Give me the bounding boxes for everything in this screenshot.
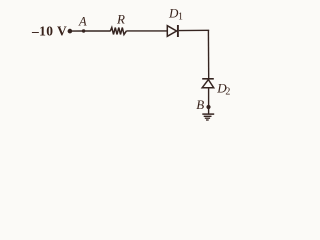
wire node A to resistor [84,30,111,32]
terminal dot [68,29,73,34]
diode D1 [167,25,178,37]
svg-text:R: R [116,12,125,27]
node A [82,29,85,32]
svg-text:B: B [196,97,204,112]
wire terminal to node A [70,30,84,32]
svg-text:–10 V: –10 V [31,24,67,39]
wire resistor to diode D1 [127,30,168,32]
svg-text:2: 2 [225,87,230,98]
wire D1 to corner [179,29,209,31]
diode D2 [202,79,214,88]
svg-text:1: 1 [178,12,183,23]
svg-text:A: A [78,14,87,28]
node B [206,105,210,109]
wire corner down to D2 [207,30,209,78]
ground [202,114,214,120]
resistor R [110,28,126,35]
wire D2 to ground [208,88,210,114]
